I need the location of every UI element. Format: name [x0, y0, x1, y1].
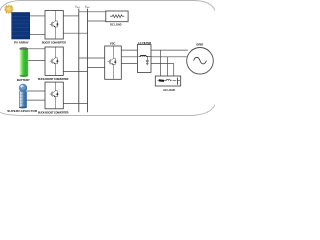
wire LC filter to grid phase b — [151, 56, 187, 58]
buck-boost converter 1 box — [45, 47, 63, 75]
battery icon — [19, 47, 28, 77]
boost converter box — [45, 11, 63, 40]
resistor inside DC load — [110, 15, 124, 18]
svg-text:LC FILTER: LC FILTER — [138, 41, 151, 45]
AC load drop wire c — [173, 64, 175, 77]
capacitor to ground inside LC filter — [146, 56, 149, 65]
wire VSC to LC filter phase b — [121, 56, 137, 58]
AC load box — [155, 76, 180, 86]
wire bus2 to VSC — [88, 66, 105, 68]
wire boost to bus1 — [63, 15, 79, 17]
AC load drop wire b — [166, 57, 168, 76]
svg-text:AC LOAD: AC LOAD — [163, 88, 175, 92]
svg-text:BUCK-BOOST CONVERTER: BUCK-BOOST CONVERTER — [38, 78, 69, 81]
wire PV bottom to boost converter — [30, 34, 45, 36]
wire buck-boost1 to bus2 — [63, 71, 87, 73]
buck-boost converter 2 IGBT symbol — [50, 82, 59, 109]
wire bus1 to VSC — [79, 57, 105, 59]
wire battery to buck-boost converter 1 — [28, 60, 45, 62]
wire LC filter to grid phase a — [151, 49, 188, 51]
wire supercapacitor to buck-boost2 bottom — [27, 99, 45, 101]
inductor inside LC filter — [138, 56, 140, 58]
wire LC filter to AC load phase c — [151, 63, 174, 65]
LC filter box — [137, 45, 151, 73]
boost converter IGBT symbol — [50, 11, 59, 40]
wire bus2 to DC load — [88, 20, 106, 22]
svg-text:GRID: GRID — [196, 43, 203, 47]
svg-text:BATTERY: BATTERY — [17, 78, 30, 82]
wire VSC to LC filter phase a — [121, 49, 137, 51]
wire battery top to buck-boost converter 1 — [28, 48, 45, 50]
wire boost to bus2 — [63, 32, 87, 34]
svg-text:PV ARRAY: PV ARRAY — [14, 40, 29, 44]
svg-text:BUCK-BOOST CONVERTER: BUCK-BOOST CONVERTER — [38, 112, 69, 115]
supercapacitor icon — [19, 84, 27, 109]
wire VSC to LC filter phase c — [121, 63, 137, 65]
svg-text:VSC: VSC — [110, 42, 116, 46]
wire supercapacitor to buck-boost2 top — [27, 90, 45, 92]
AC load drop wire a — [160, 50, 162, 76]
DC bus line 1 — [78, 9, 80, 113]
svg-text:SUPERCAPACITOR: SUPERCAPACITOR — [7, 109, 38, 113]
svg-text:Vdc2: Vdc2 — [85, 4, 91, 8]
sine wave inside grid circle — [194, 57, 207, 64]
figure rounded border frame bottom — [0, 103, 216, 116]
figure rounded border frame top — [0, 1, 216, 15]
VSC IGBT symbol — [108, 46, 117, 79]
grid circle — [187, 48, 214, 75]
RL load inside AC load box — [158, 78, 180, 85]
sun icon — [4, 5, 13, 14]
wire bus1 to DC load — [79, 11, 106, 13]
buck-boost converter 2 box — [45, 82, 63, 109]
VSC box — [105, 46, 122, 79]
wire PV top to boost converter — [30, 15, 45, 17]
PV array panel — [12, 13, 30, 40]
buck-boost converter 1 IGBT symbol — [50, 47, 59, 75]
svg-text:Vdc1: Vdc1 — [75, 4, 80, 8]
svg-text:BOOST CONVERTER: BOOST CONVERTER — [42, 41, 66, 44]
svg-text:DC LOAD: DC LOAD — [110, 23, 121, 27]
wire buck-boost2 to bus2 — [63, 102, 87, 104]
DC bus line 2 — [87, 9, 89, 113]
DC load box — [106, 11, 128, 22]
